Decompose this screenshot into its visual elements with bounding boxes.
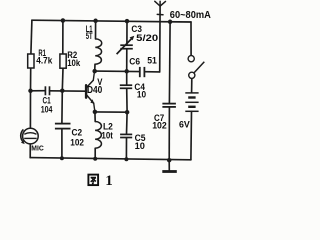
svg-text:C6: C6 [129, 57, 140, 67]
wire L1 bottom lead [94, 64, 96, 71]
svg-text:MIC: MIC [31, 145, 44, 152]
wire mic top lead [29, 91, 31, 129]
node C4 top [124, 69, 129, 74]
antenna [155, 1, 166, 15]
capacitor C4 [120, 85, 132, 88]
node C5 bottom [124, 157, 128, 161]
wire emitter node [95, 111, 127, 113]
capacitor C5 [120, 134, 132, 137]
svg-text:10: 10 [137, 90, 146, 100]
wire battery to bottom corner [190, 111, 193, 159]
node emitter [93, 110, 98, 115]
capacitor C7 [162, 104, 176, 107]
wire C5 bottom lead [125, 138, 127, 160]
wire R2 top lead [62, 21, 64, 54]
wire R2 bottom lead [61, 68, 64, 91]
wire C6 to antenna line [145, 71, 160, 73]
node C4 bottom [125, 110, 130, 115]
transistor emitter arrowhead [90, 99, 94, 104]
node base R2 [60, 88, 65, 93]
svg-text:1: 1 [105, 173, 113, 189]
wire L2 top lead [94, 112, 96, 122]
resistor R2 [60, 54, 66, 68]
svg-text:51: 51 [147, 56, 157, 66]
wire C2 top lead [61, 91, 63, 124]
wire C4 top lead [126, 71, 128, 85]
svg-text:102: 102 [70, 137, 84, 147]
capacitor C3 variable [117, 38, 133, 54]
node L1 top [93, 19, 98, 24]
wire C3 top lead [126, 21, 128, 45]
wire antenna feed line [159, 6, 161, 72]
node ground [167, 158, 172, 163]
svg-text:104: 104 [41, 105, 53, 115]
wire base left segment [31, 90, 46, 92]
node C7 top [168, 20, 173, 25]
inductor L2 [95, 122, 101, 149]
node C2 bottom [60, 156, 64, 160]
resistor R1 [28, 54, 34, 68]
wire switch to battery [191, 79, 193, 93]
svg-text:5/20: 5/20 [136, 33, 158, 43]
svg-text:C2: C2 [72, 128, 83, 138]
wire C2 bottom lead [61, 129, 63, 158]
wire collector node to C6 [95, 70, 140, 73]
capacitor C2 [55, 124, 71, 129]
capacitor C3 arrowhead [130, 36, 135, 41]
wire L1 top lead [95, 21, 97, 39]
svg-text:5T: 5T [86, 31, 93, 41]
svg-text:102: 102 [152, 120, 167, 130]
wire top rail [32, 20, 191, 22]
wire C5 top lead [126, 112, 129, 134]
node C3 top [125, 19, 130, 24]
ground [162, 170, 177, 173]
caption 图 glyph [88, 175, 98, 186]
node R2 top [61, 18, 66, 23]
battery 6V [185, 93, 198, 111]
inductor L1 [95, 39, 102, 64]
switch S [188, 56, 194, 62]
svg-text:10k: 10k [67, 58, 81, 68]
node L2 bottom [93, 157, 97, 161]
transistor V D40 [86, 71, 95, 112]
wire L2 bottom lead [94, 148, 96, 159]
svg-text:10t: 10t [101, 131, 113, 141]
wire R1 bottom lead [30, 68, 32, 91]
wire ground stem [168, 160, 170, 170]
wire C3 bottom lead [126, 49, 128, 71]
svg-text:4.7k: 4.7k [36, 56, 53, 66]
svg-text:60~80mA: 60~80mA [170, 10, 212, 21]
capacitor C1 [45, 86, 49, 95]
wire left edge top [31, 20, 32, 54]
node collector [92, 69, 97, 74]
node base left [28, 89, 33, 94]
microphone arrow [21, 129, 24, 142]
microphone MIC [23, 128, 39, 144]
svg-text:D40: D40 [87, 85, 103, 96]
capacitor C6 [140, 67, 145, 77]
wire bottom rail [30, 158, 191, 160]
wire right edge to switch [190, 22, 192, 56]
wire mic bottom lead [29, 144, 31, 158]
svg-text:6V: 6V [179, 120, 190, 130]
wire C4 bottom lead [126, 89, 128, 113]
wire C7 bottom lead [168, 107, 170, 160]
svg-text:10: 10 [135, 141, 145, 151]
wire base right segment [50, 90, 86, 92]
wire C7 top lead [168, 22, 171, 104]
